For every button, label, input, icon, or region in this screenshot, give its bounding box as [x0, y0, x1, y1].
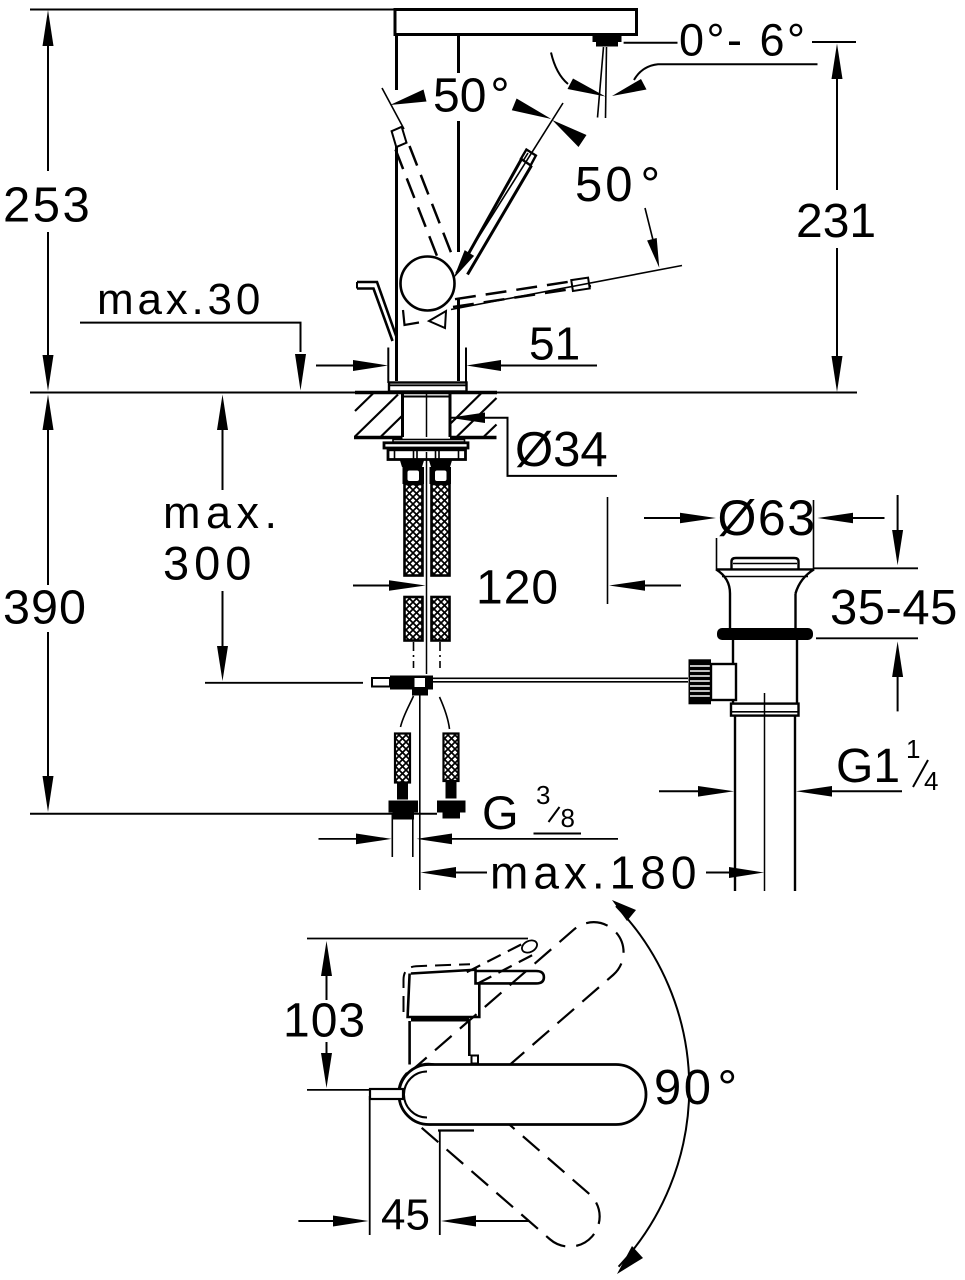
- flange: [384, 443, 468, 448]
- svg-text:45: 45: [381, 1191, 430, 1240]
- hose fittings: [403, 467, 425, 484]
- washer: [393, 440, 465, 443]
- svg-text:35-45: 35-45: [830, 581, 958, 635]
- svg-text:50°: 50°: [575, 158, 663, 212]
- ref tick 231 top: [812, 41, 856, 43]
- pop-up rod pin: [370, 1089, 403, 1099]
- dimension 35-45: [814, 567, 918, 569]
- dimension 103: [283, 941, 366, 1088]
- svg-text:4: 4: [924, 766, 938, 796]
- angle bowtie arrows 50deg no2: [512, 99, 552, 120]
- 50deg no1 leader: [382, 88, 404, 129]
- countertop top line: [30, 392, 857, 394]
- svg-text:1: 1: [906, 734, 920, 764]
- mounting stud right: [444, 734, 459, 782]
- dimension 390: [3, 395, 87, 813]
- svg-text:50°: 50°: [433, 70, 510, 123]
- dashed lever down marks: [403, 310, 419, 325]
- pop-up rod right segment: [433, 677, 688, 679]
- top reference line: [30, 9, 395, 11]
- dim 51 ticks: [387, 348, 389, 384]
- drain gasket: [717, 628, 813, 640]
- hose crimps: [400, 461, 424, 468]
- tee fitting: [390, 676, 433, 690]
- drain plug cap: [732, 558, 799, 569]
- nozzle aerator: [593, 35, 622, 42]
- dashed spout rotated up: [387, 910, 635, 1137]
- svg-text:253: 253: [3, 179, 92, 233]
- mounting nut: [388, 450, 466, 460]
- faucet body right edge: [457, 35, 460, 382]
- svg-text:0°- 6°: 0°- 6°: [679, 15, 808, 66]
- leader line 0-6 upper: [624, 42, 678, 44]
- bottom extension line 103: [307, 1089, 390, 1091]
- knurled knob: [689, 659, 712, 704]
- svg-text:max.30: max.30: [97, 275, 264, 324]
- top extension line: [307, 938, 528, 940]
- braided hose right seg2: [432, 597, 450, 641]
- lever axis line: [456, 103, 563, 273]
- label Ø34: [449, 418, 617, 476]
- body column side view: [408, 1021, 411, 1065]
- svg-text:max.: max.: [163, 487, 283, 538]
- svg-text:90°: 90°: [654, 1061, 740, 1115]
- braided hose left seg2: [405, 597, 423, 641]
- spout lip: [438, 1129, 474, 1131]
- solid lever end cap: [521, 150, 536, 166]
- svg-text:120: 120: [476, 562, 559, 615]
- spout bar: [395, 10, 637, 35]
- svg-text:51: 51: [529, 318, 580, 370]
- dashed lever horizontal: [455, 280, 583, 300]
- water stream: [598, 47, 604, 118]
- handle ball: [401, 257, 455, 311]
- dashed handle tip cap: [520, 938, 539, 955]
- 90 deg arc: [616, 906, 689, 1267]
- svg-text:231: 231: [796, 195, 876, 248]
- hose tail centerlines: [413, 642, 415, 668]
- svg-text:3: 3: [536, 780, 550, 810]
- svg-text:Ø34: Ø34: [515, 423, 608, 477]
- svg-text:103: 103: [283, 995, 366, 1048]
- pop-up rod left segment: [205, 682, 363, 684]
- shank: [401, 394, 404, 438]
- dashed spout rotated down: [386, 1052, 612, 1259]
- dashed lever horizontal end box: [571, 278, 589, 291]
- bottom reference line 390: [30, 813, 437, 815]
- dashed lever upper-left end box: [392, 127, 407, 147]
- drain tailpipe: [734, 716, 736, 891]
- lever axis line horizontal: [451, 266, 682, 310]
- drain nut: [731, 704, 799, 716]
- handle body side view: [408, 970, 480, 1017]
- solid lever: [461, 159, 522, 268]
- swivel arc left: [551, 53, 568, 85]
- dashed handle outline: [404, 964, 471, 1012]
- G3/8 extension lines: [391, 814, 393, 858]
- dimension max.180: [421, 867, 457, 878]
- faucet body left edge: [395, 35, 398, 382]
- svg-text:Ø63: Ø63: [718, 490, 817, 546]
- svg-text:390: 390: [3, 581, 87, 635]
- mounting stud left: [395, 734, 410, 783]
- dimension 45: [369, 1096, 371, 1235]
- dimension max.300: [163, 395, 283, 682]
- spout inner arc: [404, 1072, 427, 1118]
- G3/8 arrows: [319, 838, 359, 840]
- base plate: [389, 383, 467, 392]
- handle base shadow: [411, 1017, 469, 1022]
- stud leaders: [401, 696, 414, 727]
- drain body upper: [729, 594, 731, 629]
- svg-text:300: 300: [163, 537, 256, 590]
- braided hose left seg1: [405, 484, 423, 576]
- drain centerline: [764, 693, 766, 891]
- faucet centerline: [426, 452, 428, 674]
- leader line 0-6 lower: [634, 64, 818, 80]
- drain flange cone: [716, 569, 814, 593]
- svg-text:max.180: max.180: [490, 847, 701, 899]
- dashed lever upper-left: [396, 150, 438, 257]
- drain: Ø63 dimension: [644, 517, 681, 519]
- countertop hatching: [355, 394, 497, 437]
- svg-text:8: 8: [561, 803, 575, 833]
- braided hose right seg1: [432, 484, 450, 576]
- dim 51 arrows: [316, 365, 354, 367]
- hook lever: [357, 282, 397, 337]
- dimension 253: [3, 10, 92, 391]
- handle lever bar: [476, 971, 544, 983]
- svg-text:G: G: [482, 786, 519, 839]
- spout side view: [399, 1065, 646, 1125]
- dashed handle lever up: [467, 942, 526, 972]
- drain body lower: [732, 640, 734, 704]
- arrow from 50deg no2 to lower lever: [645, 208, 653, 240]
- countertop bottom line: [354, 436, 403, 440]
- svg-text:G1: G1: [836, 740, 900, 793]
- dimension 231: [796, 44, 876, 393]
- G1 1/4 arrows: [659, 790, 699, 792]
- max.180 extension lines: [419, 696, 421, 891]
- tee left stub: [372, 678, 390, 687]
